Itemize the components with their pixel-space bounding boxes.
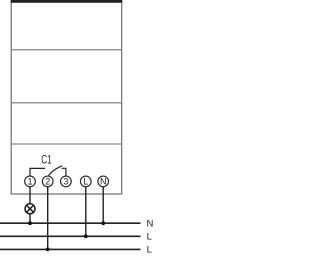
svg-text:1: 1 bbox=[27, 177, 32, 187]
svg-text:C1: C1 bbox=[41, 152, 52, 166]
svg-text:L: L bbox=[83, 177, 88, 187]
svg-text:L: L bbox=[147, 231, 152, 242]
svg-text:2: 2 bbox=[45, 177, 50, 187]
svg-text:N: N bbox=[147, 218, 154, 229]
svg-text:3: 3 bbox=[63, 177, 68, 187]
svg-text:N: N bbox=[100, 177, 107, 187]
svg-text:L: L bbox=[147, 245, 152, 256]
